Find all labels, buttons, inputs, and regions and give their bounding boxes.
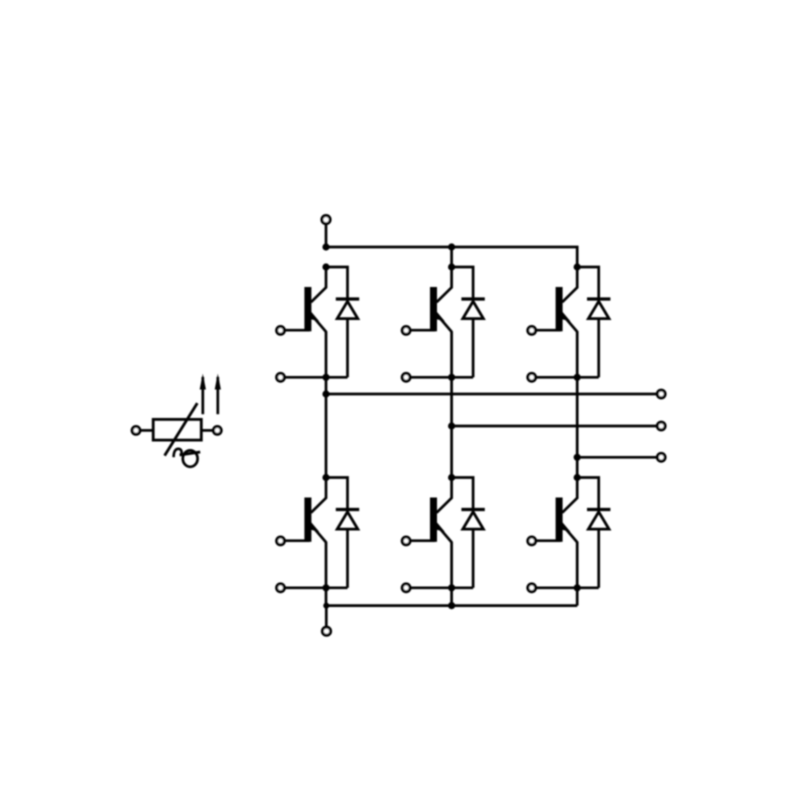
diode D6 (freewheel): [577, 478, 610, 588]
terminal auxiliary emitter E4: [277, 584, 285, 592]
node collector junction T5/D5: [448, 474, 455, 481]
terminal auxiliary emitter E3: [528, 373, 536, 381]
wire phase output V: [452, 425, 657, 428]
wire phase output U: [326, 393, 657, 396]
node phase V junction: [448, 422, 455, 429]
wire auxiliary emitter T2: [410, 376, 473, 379]
wire auxiliary emitter T5: [410, 586, 473, 589]
node emitter/aux junction T1: [322, 374, 329, 381]
transistor T3 (IGBT): [536, 287, 577, 332]
wire collector T6: [562, 478, 577, 513]
wire emitter T4: [325, 542, 328, 606]
wire emitter T1: [325, 331, 328, 477]
wire emitter T3: [576, 331, 579, 477]
terminal DC+ (top): [322, 216, 330, 224]
node emitter/aux junction T4: [322, 584, 329, 591]
terminal auxiliary emitter E5: [402, 584, 410, 592]
temperature influence arrow 2: [215, 374, 221, 415]
node collector junction T4/D4: [322, 474, 329, 481]
node DC- rail / leg2: [448, 602, 455, 609]
node DC+ rail / leg2: [448, 243, 455, 250]
wire DC+ bus rail: [326, 247, 577, 267]
transistor T5 (IGBT): [410, 498, 451, 543]
terminal phase V: [657, 422, 665, 430]
wire collector T1: [311, 267, 326, 302]
wire DC- bus rail: [326, 604, 577, 607]
node phase W junction: [574, 454, 581, 461]
terminal gate G5: [402, 537, 410, 545]
terminal auxiliary emitter E6: [528, 584, 536, 592]
wire emitter T6: [576, 542, 579, 606]
terminal thermistor right: [213, 427, 221, 435]
node phase U junction: [322, 390, 329, 397]
wire auxiliary emitter T4: [285, 586, 348, 589]
wire collector T3: [562, 267, 577, 302]
node collector junction T2/D2: [448, 263, 455, 270]
terminal phase U: [657, 390, 665, 398]
diode D2 (freewheel): [452, 267, 485, 377]
label theta (temperature): [174, 449, 201, 467]
terminal gate G1: [277, 327, 285, 335]
node collector junction T6/D6: [574, 474, 581, 481]
wire DC- lead: [325, 606, 328, 627]
transistor T4 (IGBT): [285, 498, 326, 543]
wire rail drop leg2: [450, 247, 453, 267]
terminal auxiliary emitter E1: [277, 373, 285, 381]
node emitter/aux junction T3: [574, 374, 581, 381]
diode D1 (freewheel): [326, 267, 359, 377]
wire emitter T5: [450, 542, 453, 606]
thermistor R1 (NTC) body: [141, 403, 213, 456]
transistor T2 (IGBT): [410, 287, 451, 332]
wire DC+ lead: [325, 225, 328, 247]
transistor T6 (IGBT): [536, 498, 577, 543]
terminal phase W: [657, 453, 665, 461]
temperature influence arrow 1: [200, 374, 206, 415]
transistor T1 (IGBT): [285, 287, 326, 332]
node collector junction T1/D1: [322, 263, 329, 270]
diode D5 (freewheel): [452, 478, 485, 588]
terminal gate G4: [277, 537, 285, 545]
wire collector T5: [437, 478, 452, 513]
terminal thermistor left: [132, 427, 140, 435]
terminal gate G2: [402, 327, 410, 335]
wire collector T2: [437, 267, 452, 302]
node DC+ rail / leg1: [322, 243, 329, 250]
terminal auxiliary emitter E2: [402, 373, 410, 381]
node emitter/aux junction T5: [448, 584, 455, 591]
node DC- rail / leg1: [323, 603, 329, 609]
terminal DC- (bottom): [322, 627, 330, 635]
terminal gate G6: [528, 537, 536, 545]
terminal gate G3: [528, 327, 536, 335]
wire emitter T2: [450, 331, 453, 477]
node emitter/aux junction T2: [448, 374, 455, 381]
wire auxiliary emitter T6: [536, 586, 599, 589]
node emitter/aux junction T6: [574, 584, 581, 591]
diode D3 (freewheel): [577, 267, 610, 377]
node collector junction T3/D3: [574, 263, 581, 270]
wire auxiliary emitter T1: [285, 376, 348, 379]
diode D4 (freewheel): [326, 478, 359, 588]
wire auxiliary emitter T3: [536, 376, 599, 379]
wire collector T4: [311, 478, 326, 513]
wire phase output W: [577, 456, 656, 459]
